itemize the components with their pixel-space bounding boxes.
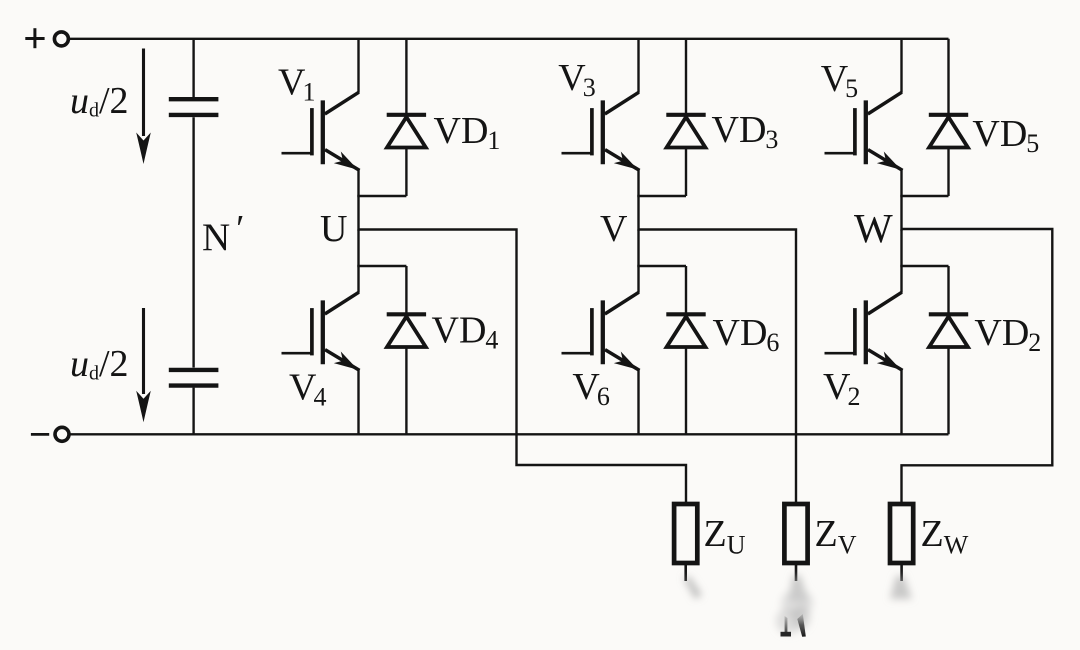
diode VD4 bbox=[387, 314, 426, 347]
diode VD2 bbox=[929, 314, 968, 347]
wire: U output to load ZU bbox=[359, 230, 687, 505]
wire: V5 collector from DC+ rail bbox=[900, 39, 902, 93]
svg-text:ZV: ZV bbox=[815, 513, 857, 560]
plus terminal symbol bbox=[25, 28, 44, 48]
wire: V2 collector jog to VD2 bbox=[900, 265, 948, 267]
wire: DC- bottom rail bbox=[69, 433, 948, 435]
svg-text:ZU: ZU bbox=[704, 513, 746, 560]
svg-text:VD4: VD4 bbox=[432, 310, 499, 355]
svg-text:W: W bbox=[854, 205, 893, 251]
svg-text:V3: V3 bbox=[558, 57, 595, 102]
wire: V5 emitter to node W bbox=[900, 170, 902, 231]
wire: node V to V6 collector bbox=[637, 230, 639, 293]
wire: V4 collector jog to VD4 bbox=[357, 265, 406, 267]
diode VD3 bbox=[666, 115, 705, 148]
diode VD1 bbox=[387, 115, 426, 148]
svg-text:VD3: VD3 bbox=[712, 109, 779, 154]
wire: VD3 anode down bbox=[685, 148, 687, 197]
wire: VD2 anode to DC- rail bbox=[947, 347, 949, 434]
transistor V5 (IGBT) bbox=[825, 92, 903, 170]
svg-text:ZW: ZW bbox=[921, 513, 969, 560]
wire: VD6 anode to DC- rail bbox=[685, 347, 687, 434]
wire: node W to V2 collector bbox=[900, 230, 902, 293]
svg-text:VD2: VD2 bbox=[974, 312, 1041, 357]
svg-text:U: U bbox=[320, 208, 347, 250]
faded smudge below ZV stub (erased neutral lead) bbox=[776, 575, 813, 634]
partial letter N (erased neutral node label) bbox=[781, 614, 806, 637]
svg-text:V: V bbox=[600, 208, 628, 250]
load ZW bbox=[890, 504, 913, 563]
faded smudge below ZU stub bbox=[683, 577, 702, 599]
faded smudge below ZW stub bbox=[890, 576, 912, 599]
wire: VD1 cathode from DC+ rail bbox=[405, 39, 407, 117]
plus terminal circle bbox=[54, 32, 68, 46]
diode VD6 bbox=[666, 314, 705, 347]
svg-text:V1: V1 bbox=[278, 61, 315, 106]
svg-text:VD5: VD5 bbox=[972, 113, 1039, 158]
wire: VD5 cathode from DC+ rail bbox=[947, 39, 949, 117]
svg-text:V2: V2 bbox=[823, 366, 860, 411]
wire: VD4 anode to DC- rail bbox=[405, 347, 407, 434]
transistor V3 (IGBT) bbox=[562, 92, 640, 170]
svg-text:VD1: VD1 bbox=[434, 110, 501, 155]
transistor V4 (IGBT) bbox=[282, 292, 360, 370]
wire: ZW bottom stub to neutral bbox=[900, 563, 903, 581]
wire: node U to V4 collector bbox=[357, 230, 359, 293]
wire: DC+ rail to capacitor C1 bbox=[192, 39, 194, 97]
transistor V2 (IGBT) bbox=[825, 292, 903, 370]
svg-text:N′: N′ bbox=[202, 208, 244, 259]
wire: V6 collector jog to VD6 bbox=[637, 265, 686, 267]
current arrow upper head bbox=[136, 133, 151, 165]
wire: V4 emitter to DC- rail bbox=[357, 370, 359, 435]
minus terminal circle bbox=[55, 427, 69, 441]
current arrow lower shaft bbox=[142, 308, 145, 394]
wire: VD2 cathode lead bbox=[947, 266, 949, 317]
wire: capacitor midpoint link (node N') bbox=[192, 117, 194, 367]
load ZV bbox=[784, 504, 807, 563]
capacitor C2 (lower ud/2) bbox=[169, 370, 219, 386]
wire: V3 emitter to node V bbox=[637, 170, 639, 231]
wire: DC+ top rail bbox=[69, 38, 949, 40]
svg-text:V6: V6 bbox=[572, 366, 609, 411]
svg-text:VD6: VD6 bbox=[713, 312, 780, 357]
wire: V3 collector from DC+ rail bbox=[637, 39, 639, 93]
wire: V1 emitter / VD1 anode junction bbox=[357, 195, 406, 197]
capacitor C1 (upper ud/2) bbox=[169, 99, 219, 115]
wire: V3 emitter / VD3 anode junction bbox=[637, 195, 686, 197]
wire: W output to load ZW bbox=[902, 229, 1053, 505]
wire: VD4 cathode lead bbox=[405, 266, 407, 317]
wire: VD1 anode down bbox=[405, 148, 407, 197]
wire: V2 emitter to DC- rail bbox=[900, 370, 902, 435]
wire: VD6 cathode lead bbox=[685, 266, 687, 317]
transistor V1 (IGBT) bbox=[282, 92, 360, 170]
svg-text:V4: V4 bbox=[289, 366, 326, 411]
svg-text:V5: V5 bbox=[821, 58, 858, 103]
load ZU bbox=[674, 504, 697, 563]
wire: ZU bottom stub to neutral bbox=[684, 563, 687, 581]
wire: ZV bottom stub to neutral bbox=[795, 563, 798, 581]
wire: VD5 anode down bbox=[947, 148, 949, 197]
wire: V output to load ZV bbox=[639, 230, 797, 505]
wire: V6 emitter to DC- rail bbox=[637, 370, 639, 435]
diode VD5 bbox=[929, 115, 968, 148]
minus terminal symbol bbox=[31, 433, 49, 436]
svg-text:ud/2: ud/2 bbox=[70, 80, 129, 122]
wire: V1 emitter to node U bbox=[357, 170, 359, 231]
transistor V6 (IGBT) bbox=[562, 292, 640, 370]
current arrow upper shaft bbox=[142, 49, 145, 137]
svg-text:ud/2: ud/2 bbox=[70, 343, 129, 385]
wire: VD3 cathode from DC+ rail bbox=[685, 39, 687, 117]
wire: capacitor C2 to DC- rail bbox=[192, 388, 194, 435]
wire: V5 emitter / VD5 anode junction bbox=[900, 195, 948, 197]
wire: V1 collector from DC+ rail bbox=[357, 39, 359, 93]
current arrow lower head bbox=[136, 391, 151, 423]
